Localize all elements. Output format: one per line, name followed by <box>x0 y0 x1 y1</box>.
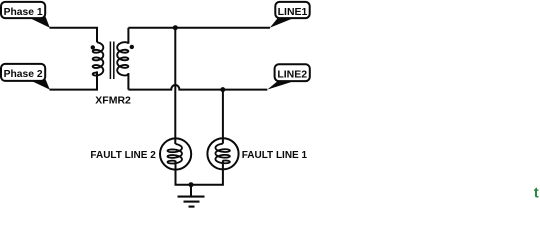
svg-text:FAULT LINE 2: FAULT LINE 2 <box>90 150 156 161</box>
svg-text:LINE2: LINE2 <box>277 69 307 81</box>
svg-text:XFMR2: XFMR2 <box>95 95 131 107</box>
svg-text:Phase 1: Phase 1 <box>4 7 43 18</box>
svg-text:Phase 2: Phase 2 <box>4 69 43 80</box>
svg-text:FAULT LINE 1: FAULT LINE 1 <box>242 150 308 161</box>
svg-text:t: t <box>534 185 539 202</box>
svg-text:LINE1: LINE1 <box>278 6 308 18</box>
